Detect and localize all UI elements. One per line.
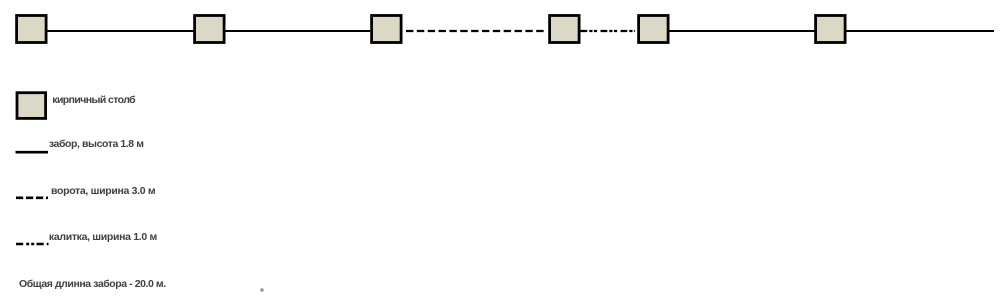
legend wicket dash-dot symbol — [16, 243, 49, 246]
legend gate dashed symbol — [16, 197, 48, 200]
brick post 6 — [816, 16, 846, 43]
wire fence section 3 — [669, 30, 815, 32]
brick post 5 — [639, 16, 669, 43]
wire fence section 2 — [225, 30, 370, 32]
legend label: gate width — [51, 186, 155, 197]
total length note — [19, 279, 166, 290]
legend brick post symbol — [17, 93, 46, 119]
brick post 3 — [372, 16, 402, 43]
legend label: wicket width — [49, 232, 157, 243]
legend fence line symbol — [16, 151, 49, 154]
gate dashed line (vorota) — [406, 30, 544, 32]
brick post 1 — [17, 16, 46, 43]
stray gray dot artifact — [261, 289, 264, 292]
wicket dash-dot line (kalitka) — [581, 30, 635, 32]
wire fence section 4 — [846, 30, 994, 32]
legend label: brick post — [52, 95, 135, 106]
brick post 4 — [550, 16, 580, 43]
brick post 2 — [195, 16, 225, 43]
legend label: fence height — [49, 139, 144, 150]
wire fence section 1 — [47, 30, 194, 32]
